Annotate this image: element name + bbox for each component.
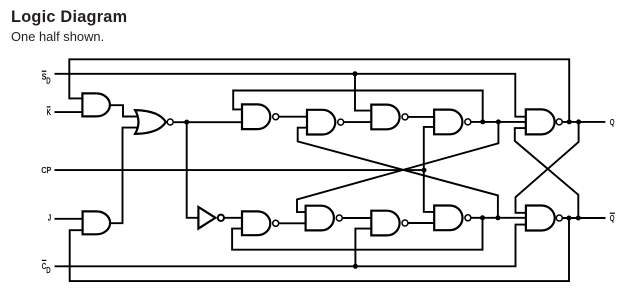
NAND gate Q output (526, 109, 555, 134)
wire Qbar output line (563, 217, 606, 219)
wire top feedback line (Q to K-gate) (69, 59, 569, 122)
wire gateC output to gateD bottom input (408, 222, 435, 224)
wire gateB output to gateC top input (343, 217, 373, 219)
junction Q line right (576, 119, 581, 124)
NAND gate A bubble (273, 220, 279, 226)
wire J-AND output to NOR bottom input (110, 128, 139, 224)
svg-text:Q: Q (610, 213, 615, 223)
inverter (198, 207, 215, 229)
wire K input line (55, 111, 84, 113)
wire CP vertical to gate5 and gateD (424, 127, 434, 212)
NAND gate D bubble (465, 215, 471, 221)
svg-text:CP: CP (41, 165, 51, 175)
wire bottom feedback line (Qbar to J-gate) (70, 218, 569, 281)
wire gate2 output to gate3 top input (279, 116, 308, 118)
NAND gate 4 (371, 105, 399, 130)
NAND gate C bubble (402, 220, 408, 226)
wire gateA output to gateB bottom input (279, 222, 307, 224)
wire NOR output to gate2 bottom input (174, 121, 243, 123)
wire gate4 output to gate5 top input (408, 116, 435, 118)
wire Q output line (563, 121, 606, 123)
wire NOR output branch down to inverter input (187, 122, 200, 218)
NAND gate A (242, 211, 270, 235)
NAND gate 4 bubble (402, 114, 408, 120)
wire gateD-output feedback to gateA bottom input (232, 218, 482, 250)
wire inverter output to gateA top input (225, 217, 243, 219)
junction gateD output right (495, 215, 500, 220)
NAND gate B (306, 206, 334, 231)
svg-text:K: K (47, 107, 51, 117)
wire gate5-output cross to gateB top input (297, 122, 498, 212)
junction NOR output (184, 120, 189, 125)
wire CD input line (55, 225, 527, 267)
wire SD input line (55, 74, 527, 117)
junction gateD output left (480, 215, 485, 220)
wire K-AND output to NOR top input (110, 105, 139, 116)
svg-text:J: J (48, 213, 51, 223)
junction CD line (353, 264, 358, 269)
NAND gate 5 (434, 110, 462, 135)
NAND gate B bubble (336, 215, 342, 221)
NAND gate C (371, 211, 399, 236)
AND gate (J input) (83, 211, 111, 234)
wire gateD-output cross to gate3 bottom input (298, 128, 498, 218)
NAND gate 5 bubble (465, 119, 471, 125)
NAND gate Q bubble (556, 119, 562, 125)
title (11, 8, 127, 27)
junction Q line left (567, 119, 572, 124)
wire gate3 output to gate4 bottom input (344, 121, 372, 123)
NAND gate 3 (307, 110, 335, 135)
junction gate5 output left (480, 119, 485, 124)
NOR gate (135, 110, 166, 134)
AND gate (K input) (82, 93, 110, 116)
junction gate5 output right (496, 119, 501, 124)
NAND gate 2 (242, 104, 270, 129)
NAND gate D (434, 206, 462, 231)
wire gateD output to Qbar-gate middle input (471, 217, 527, 219)
junction Qbar line left (567, 216, 572, 221)
NAND gate Qbar bubble (556, 215, 562, 221)
svg-text:Q: Q (610, 117, 615, 127)
svg-text:D: D (46, 76, 50, 85)
inverter output bubble (218, 215, 224, 221)
wire Q cross to Qbar-gate top input (516, 122, 579, 213)
NAND gate Qbar output (526, 206, 555, 231)
NAND gate 2 bubble (273, 114, 279, 120)
wire SD tap to gate4 top input (355, 74, 372, 111)
subtitle (11, 29, 104, 44)
NOR gate output bubble (167, 119, 173, 125)
junction CP line (422, 168, 427, 173)
wire gate5-output to gate2 top input (233, 91, 483, 122)
wire gate5 output to Q-gate middle input (471, 121, 527, 123)
NAND gate 3 bubble (338, 119, 344, 125)
wire Qbar cross to Q-gate bottom input (515, 128, 579, 218)
wire CP input line (55, 169, 425, 171)
wire CD tap to gateC bottom input (355, 229, 372, 267)
junction Qbar line right (576, 216, 581, 221)
wire J input line (55, 218, 84, 220)
svg-text:D: D (46, 266, 50, 275)
junction on SD line (353, 71, 358, 76)
